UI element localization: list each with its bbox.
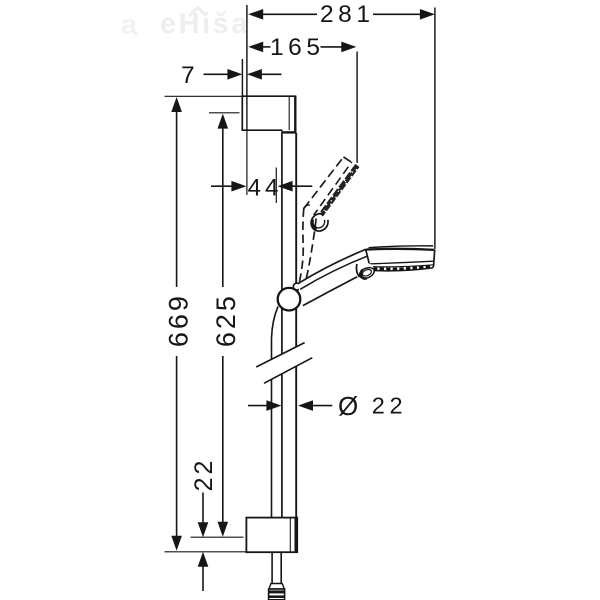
head right edge [433, 250, 435, 268]
hose cone joint [269, 584, 284, 590]
dashed sprayface seam line [314, 162, 352, 215]
svg-text:7: 7 [181, 62, 195, 89]
head top far edge [369, 246, 434, 248]
break mark upper diagonal [256, 343, 304, 367]
dashed hand shower (upright position) [300, 157, 359, 282]
wall extension line (reference plane) [246, 5, 248, 96]
hose left edge lower segment [271, 379, 273, 517]
dashed head left edge [304, 157, 344, 209]
svg-text:22: 22 [190, 458, 218, 492]
extension line 44 right [275, 168, 277, 204]
holder clip (solid) on dashed handle [304, 205, 329, 231]
dashed head top edge [344, 157, 351, 162]
hose upper curve from slider [272, 307, 279, 360]
dimension 281 [248, 1, 435, 28]
extension line 165 right [356, 52, 358, 164]
bottom bracket [246, 518, 297, 553]
extension line 669/22 bottom [165, 551, 247, 553]
slider knob [278, 288, 301, 311]
svg-text:625: 625 [211, 293, 241, 347]
dimension 165 [248, 34, 356, 61]
sprayface bottom edge [370, 268, 433, 271]
break mark lower diagonal [264, 358, 312, 384]
extension line 281 right [434, 8, 436, 250]
collar between handle and head [366, 250, 370, 264]
slider knob nub [293, 283, 300, 290]
extension line 625/22 bottom [191, 536, 244, 538]
hose nut with ribs [269, 589, 285, 600]
dashed handle right edge [306, 219, 317, 283]
holder cup at head [356, 263, 375, 280]
wall bar rail right edge [295, 133, 297, 347]
dashed spray nozzle band [321, 165, 358, 215]
dimension 44 [211, 175, 312, 202]
dimension 22 (bottom) [190, 458, 218, 591]
wall bar rail left edge [281, 133, 283, 354]
extension line 44 left (wall) [246, 131, 248, 196]
extension line left of 7 [241, 59, 243, 96]
dashed handle left edge [300, 209, 304, 282]
extension line 625 top [209, 112, 240, 114]
nozzle dots [373, 266, 432, 269]
svg-text:281: 281 [320, 1, 375, 28]
top bracket [242, 95, 296, 133]
svg-text:Ø: Ø [338, 391, 358, 421]
svg-text:a: a [121, 9, 138, 41]
svg-text:44: 44 [248, 175, 283, 202]
dimension 7 [181, 62, 282, 89]
sprayface top edge [370, 265, 434, 267]
hose below bottom bracket [269, 552, 285, 600]
svg-text:165: 165 [270, 34, 325, 61]
extension line 669 top [165, 95, 243, 97]
head top front edge [366, 249, 435, 250]
svg-text:669: 669 [163, 293, 193, 347]
dimension Ø22 [248, 391, 407, 421]
hand shower handle (solid, in holder) [298, 249, 370, 305]
head seam line [369, 261, 433, 264]
hand shower head (solid) [366, 246, 435, 271]
svg-text:22: 22 [372, 393, 407, 419]
dimension 669 [163, 97, 193, 551]
watermark eHisa logo [121, 8, 250, 42]
dimension 625 [211, 114, 241, 537]
